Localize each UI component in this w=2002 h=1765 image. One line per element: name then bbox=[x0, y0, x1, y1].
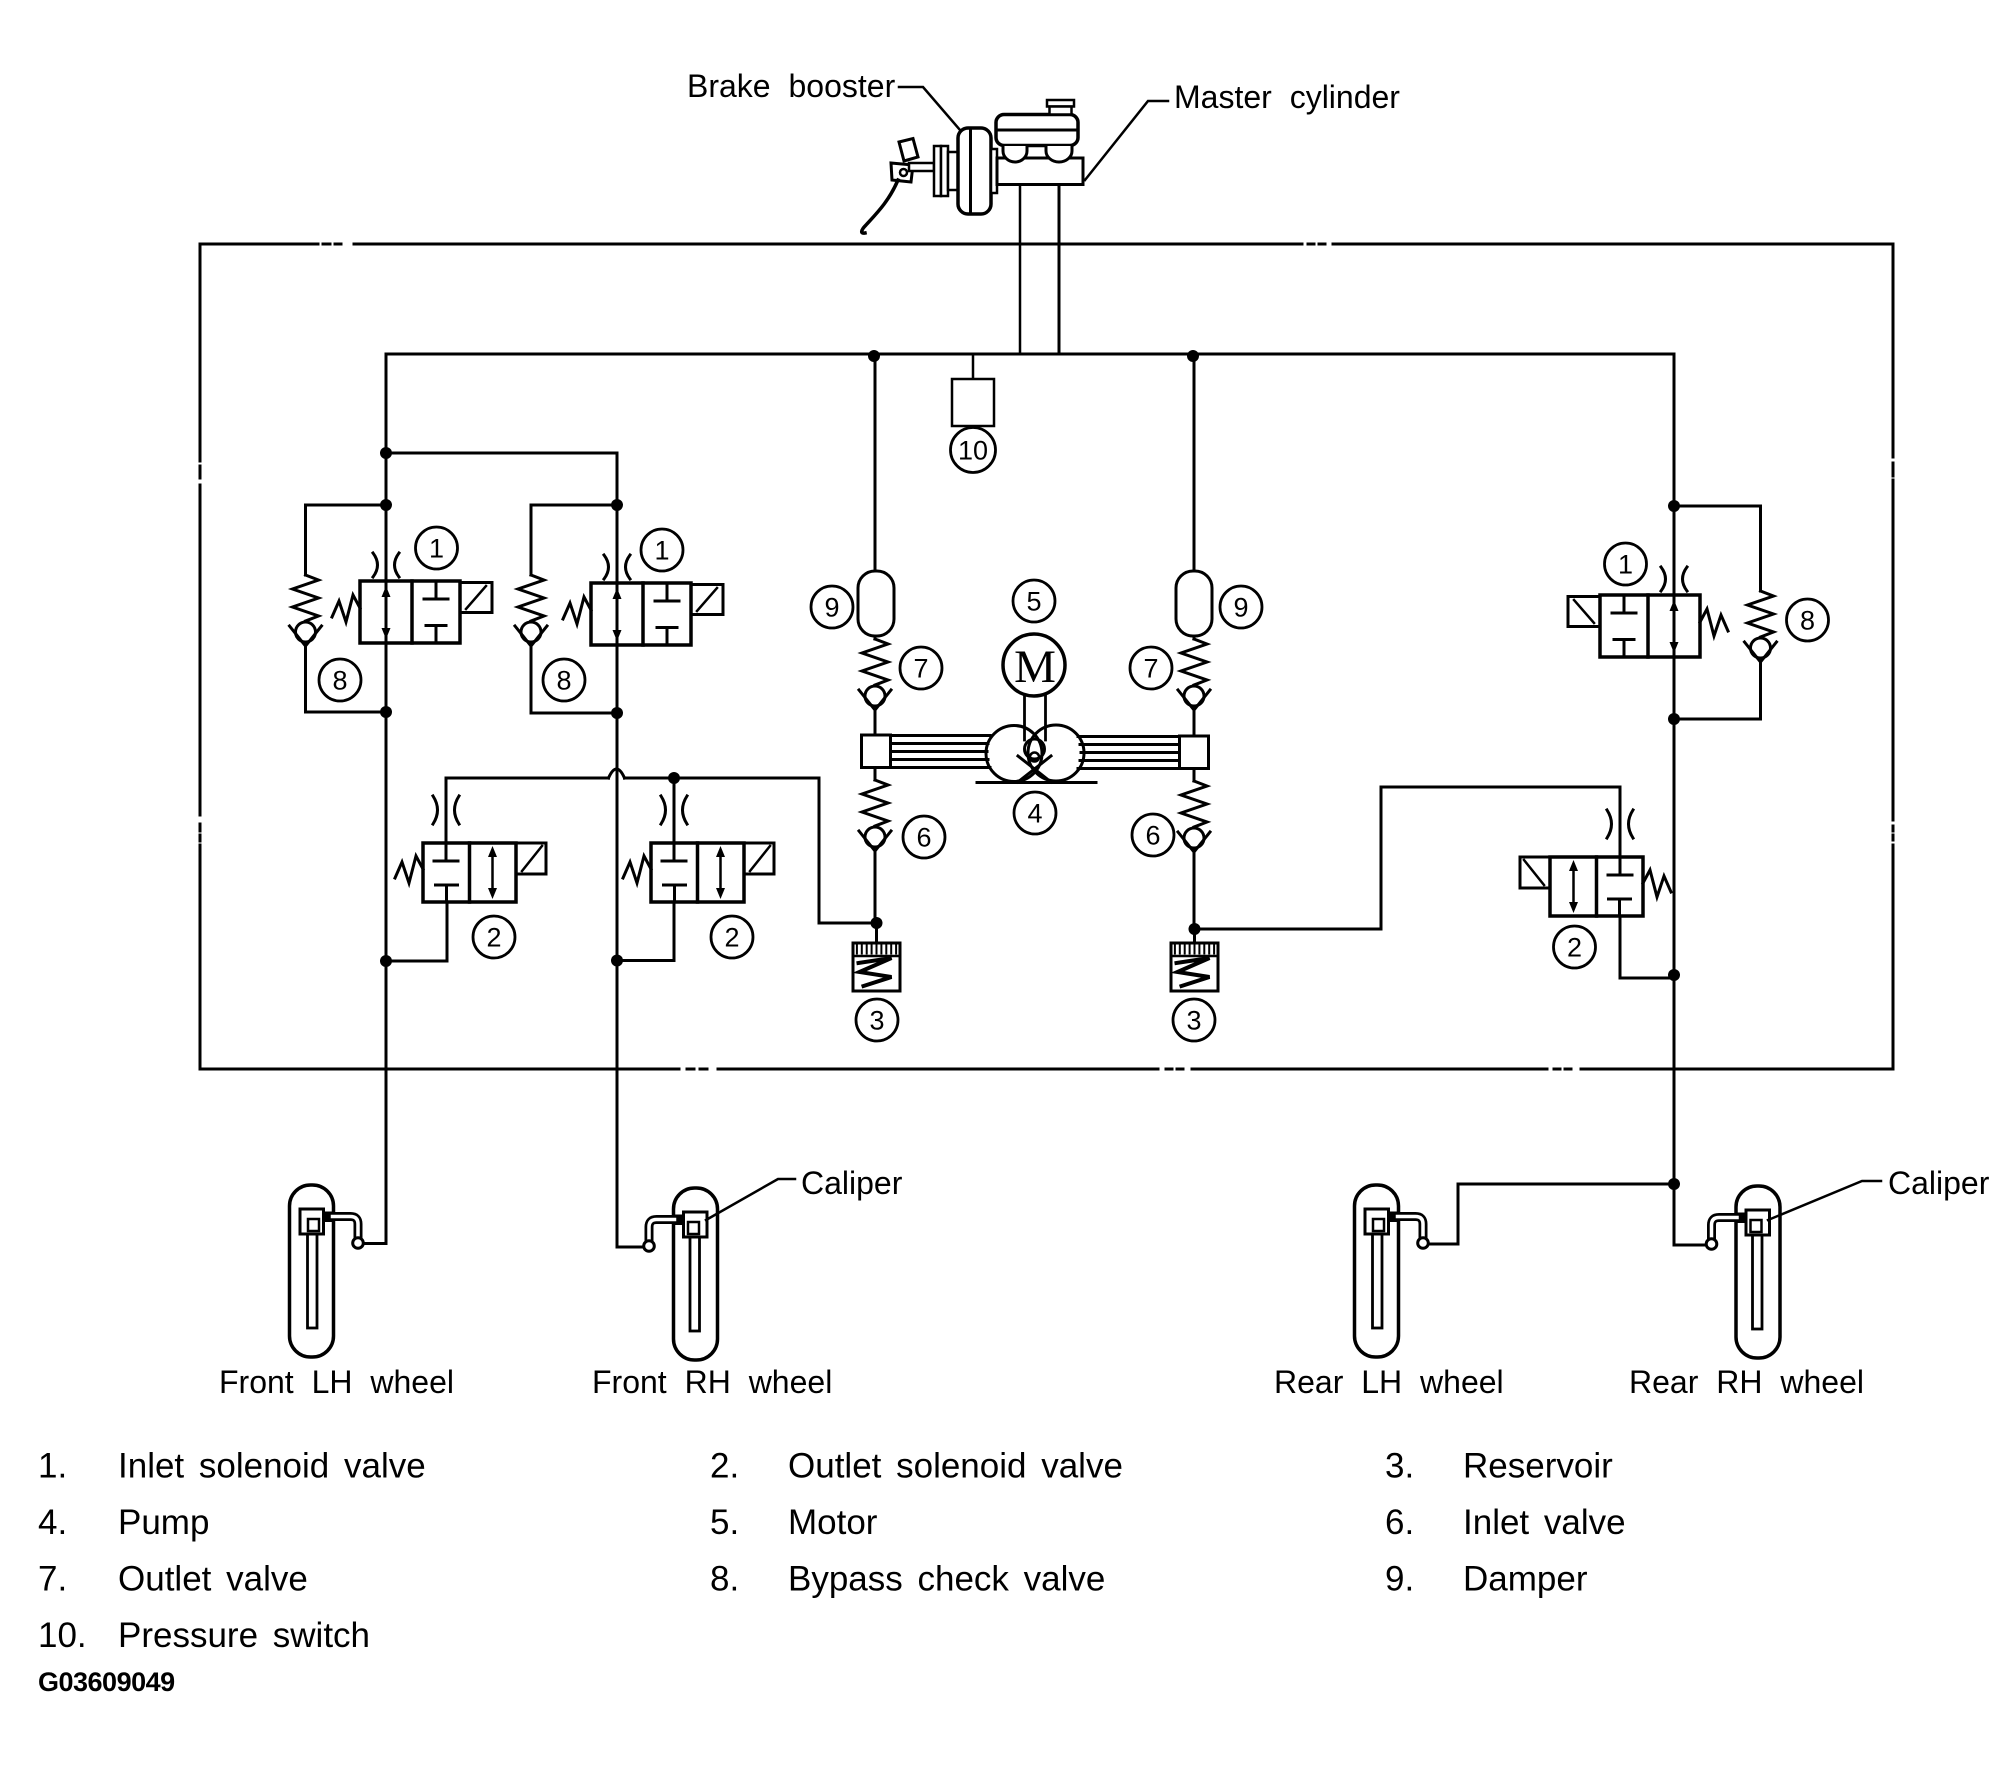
wire: branch to front RH inlet valve bbox=[386, 453, 617, 1247]
inner manifold supply line bbox=[386, 353, 1674, 356]
svg-text:10: 10 bbox=[958, 436, 988, 466]
svg-text:7: 7 bbox=[913, 654, 928, 684]
label circle 8 FL bbox=[319, 659, 361, 701]
wire hop bridge over FR line bbox=[609, 769, 625, 778]
reservoir 3 (left) bbox=[853, 943, 900, 991]
inlet valve 6 check (left) bbox=[859, 780, 891, 851]
pump 4 base line bbox=[977, 781, 1096, 784]
pump 4 left piston hatching bbox=[891, 736, 991, 768]
svg-text:4.: 4. bbox=[38, 1503, 67, 1542]
front LH wheel + caliper bbox=[290, 1185, 364, 1357]
wire: bypass branch front RH bbox=[531, 505, 617, 713]
label circle 2 rear bbox=[1554, 926, 1596, 968]
wire: left column damper to outlet check bbox=[874, 636, 877, 923]
svg-text:8: 8 bbox=[332, 666, 347, 696]
wire: right column damper to outlet check bbox=[1193, 636, 1196, 929]
pump 4 right piston hatching bbox=[1078, 737, 1180, 769]
outlet valve 7 check (right) bbox=[1178, 639, 1210, 710]
booster mount plates bbox=[934, 146, 941, 196]
label circle 2 FR bbox=[711, 916, 753, 958]
wire: front LH wheel feed bbox=[364, 1242, 386, 1245]
svg-text:Pressure switch: Pressure switch bbox=[118, 1616, 370, 1655]
label circle 1 rear bbox=[1605, 543, 1647, 585]
svg-text:6.: 6. bbox=[1385, 1503, 1414, 1542]
label circle 8 rear bbox=[1787, 599, 1829, 641]
reservoir cap bbox=[1047, 100, 1074, 107]
bypass check valve 8 (rear) bbox=[1745, 591, 1777, 662]
brake pedal lever arm bbox=[862, 180, 898, 233]
svg-text:Front RH wheel: Front RH wheel bbox=[592, 1364, 832, 1400]
svg-text:8: 8 bbox=[556, 666, 571, 696]
wire: bypass branch front LH bbox=[306, 505, 387, 712]
label circle 9 right bbox=[1220, 586, 1262, 628]
label circle 8 FR bbox=[543, 659, 585, 701]
damper 9 (left) bbox=[858, 571, 894, 636]
svg-text:7.: 7. bbox=[38, 1560, 67, 1599]
wire: left damper column drop from manifold bbox=[874, 356, 877, 571]
booster pushrod bbox=[909, 163, 934, 171]
enclosure left edge bbox=[199, 244, 202, 1069]
wire: front RH wheel feed bbox=[617, 1246, 643, 1249]
label circle 7 left bbox=[900, 647, 942, 689]
label circle 1 FL bbox=[416, 527, 458, 569]
inlet solenoid valve 1 (front RH) bbox=[563, 555, 723, 645]
svg-text:Inlet solenoid valve: Inlet solenoid valve bbox=[118, 1447, 426, 1486]
motor 5 circle bbox=[1003, 634, 1065, 696]
wire: left main branch vertical (front LH circuit) bbox=[385, 354, 388, 1244]
svg-text:Reservoir: Reservoir bbox=[1463, 1447, 1613, 1486]
svg-text:G03609049: G03609049 bbox=[38, 1667, 175, 1697]
wire: bypass branch rear bbox=[1674, 506, 1761, 719]
rear RH wheel + caliper (mirrored) bbox=[1706, 1186, 1780, 1358]
wire: rear outlet valve header bbox=[1194, 787, 1620, 929]
damper 9 (right) bbox=[1176, 571, 1212, 636]
svg-text:9: 9 bbox=[824, 593, 839, 623]
wire: rear outlet valve output bbox=[1620, 915, 1674, 978]
svg-text:Rear LH wheel: Rear LH wheel bbox=[1274, 1364, 1504, 1400]
svg-text:2.: 2. bbox=[710, 1447, 739, 1486]
svg-text:Brake booster: Brake booster bbox=[687, 68, 896, 104]
svg-text:Outlet solenoid valve: Outlet solenoid valve bbox=[788, 1447, 1123, 1486]
svg-text:Damper: Damper bbox=[1463, 1560, 1588, 1599]
wire: rear LH wheel feed bbox=[1429, 1184, 1674, 1244]
svg-text:9.: 9. bbox=[1385, 1560, 1414, 1599]
svg-text:8.: 8. bbox=[710, 1560, 739, 1599]
pump 4 right piston block bbox=[1180, 736, 1209, 769]
svg-text:Master cylinder: Master cylinder bbox=[1174, 79, 1400, 115]
svg-text:Bypass check valve: Bypass check valve bbox=[788, 1560, 1105, 1599]
svg-text:6: 6 bbox=[1145, 821, 1160, 851]
outlet solenoid valve 2 (front LH) bbox=[395, 796, 546, 902]
label circle 10 bbox=[951, 428, 996, 473]
svg-text:1: 1 bbox=[429, 534, 444, 564]
enclosure bottom edge bbox=[200, 1068, 1893, 1071]
svg-text:2: 2 bbox=[724, 923, 739, 953]
label circle 3 left bbox=[856, 999, 898, 1041]
svg-text:3: 3 bbox=[869, 1006, 884, 1036]
svg-text:Motor: Motor bbox=[788, 1503, 878, 1542]
legend text block bbox=[38, 1447, 1626, 1656]
brake pedal pivot bracket bbox=[891, 163, 913, 182]
inlet solenoid valve 1 (rear, mirrored) bbox=[1568, 567, 1728, 657]
svg-text:5.: 5. bbox=[710, 1503, 739, 1542]
bypass check valve 8 (front RH) bbox=[515, 575, 547, 646]
svg-text:4: 4 bbox=[1027, 799, 1042, 829]
bypass check valve 8 (front LH) bbox=[290, 575, 322, 646]
inlet solenoid valve 1 (front LH) bbox=[332, 553, 492, 643]
label circle 9 left bbox=[811, 586, 853, 628]
svg-text:9: 9 bbox=[1233, 593, 1248, 623]
wire: reservoir stems bbox=[877, 923, 1195, 943]
label circle 3 right bbox=[1173, 999, 1215, 1041]
circled numbers bbox=[319, 428, 1829, 1042]
motor 5 shaft bbox=[1025, 694, 1046, 740]
svg-text:1.: 1. bbox=[38, 1447, 67, 1486]
circled number digits bbox=[332, 436, 1815, 1036]
svg-text:Rear RH wheel: Rear RH wheel bbox=[1629, 1364, 1864, 1400]
label circle 5 bbox=[1013, 580, 1055, 622]
svg-text:3.: 3. bbox=[1385, 1447, 1414, 1486]
master cylinder primary pipe bbox=[1019, 185, 1022, 354]
node: junction dots bbox=[380, 350, 1680, 1190]
pump 4 crank cross bbox=[1018, 756, 1051, 782]
wire: rear RH wheel feed bbox=[1674, 1184, 1706, 1245]
pump 4 eccentric circles bbox=[986, 726, 1042, 782]
svg-text:Outlet valve: Outlet valve bbox=[118, 1560, 308, 1599]
brake pedal pad bbox=[899, 139, 918, 162]
svg-text:10.: 10. bbox=[38, 1616, 87, 1655]
master cylinder body bbox=[997, 158, 1083, 185]
label circle 6 left bbox=[903, 816, 945, 858]
svg-text:M: M bbox=[1014, 641, 1056, 693]
svg-text:2: 2 bbox=[1567, 933, 1582, 963]
front RH wheel + caliper (mirrored) bbox=[644, 1188, 718, 1360]
svg-text:Front LH wheel: Front LH wheel bbox=[219, 1364, 454, 1400]
enclosure right edge bbox=[1892, 244, 1895, 1069]
rear LH wheel + caliper bbox=[1355, 1185, 1429, 1357]
label circle 6 right bbox=[1132, 814, 1174, 856]
wire: right damper column drop from manifold bbox=[1193, 356, 1196, 571]
label circle 4 bbox=[1014, 792, 1056, 834]
wire: right main branch vertical (rear circuit) bbox=[1673, 354, 1676, 1245]
label circle 2 FL bbox=[473, 916, 515, 958]
reservoir 3 (right) bbox=[1171, 943, 1218, 991]
wire: outlet valve FL output to wheel line bbox=[386, 902, 447, 961]
svg-text:Inlet valve: Inlet valve bbox=[1463, 1503, 1626, 1542]
svg-text:1: 1 bbox=[654, 536, 669, 566]
outlet solenoid valve 2 (front RH) bbox=[623, 796, 774, 902]
svg-text:7: 7 bbox=[1143, 654, 1158, 684]
inlet valve 6 check (right) bbox=[1178, 781, 1210, 852]
label circle 7 right bbox=[1130, 647, 1172, 689]
svg-text:5: 5 bbox=[1026, 587, 1041, 617]
brake booster body bbox=[958, 128, 991, 214]
master cylinder secondary pipe bbox=[1058, 184, 1061, 354]
svg-text:1: 1 bbox=[1618, 550, 1633, 580]
reservoir port domes bbox=[1003, 146, 1027, 162]
svg-text:Pump: Pump bbox=[118, 1503, 209, 1542]
master cylinder reservoir bbox=[996, 115, 1078, 146]
wire: left outlet valves header at y=778 with hop over FR line bbox=[446, 778, 876, 923]
pressure switch 10 bbox=[972, 356, 975, 379]
svg-text:3: 3 bbox=[1186, 1006, 1201, 1036]
label circle 1 FR bbox=[641, 529, 683, 571]
pump 4 left piston block bbox=[862, 735, 891, 768]
svg-text:8: 8 bbox=[1800, 606, 1815, 636]
svg-text:Caliper: Caliper bbox=[801, 1165, 903, 1201]
outlet valve 7 check (left) bbox=[859, 639, 891, 710]
svg-text:6: 6 bbox=[916, 823, 931, 853]
svg-text:2: 2 bbox=[486, 923, 501, 953]
svg-text:Caliper: Caliper bbox=[1888, 1165, 1990, 1201]
wire: outlet valve FR output to wheel line bbox=[617, 902, 674, 961]
outlet solenoid valve 2 (rear, mirrored) bbox=[1520, 810, 1671, 916]
HCU enclosure box (chain line) top edge bbox=[200, 244, 1893, 1069]
